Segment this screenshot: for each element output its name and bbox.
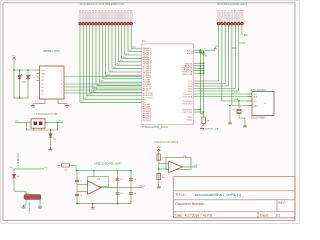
svg-text:SDA: SDA <box>234 98 239 101</box>
svg-text:1-WIRE-BUS: 1-WIRE-BUS <box>18 152 20 166</box>
svg-text:JS8086A-PINS: JS8086A-PINS <box>43 49 61 53</box>
svg-text:D34: D34 <box>100 81 103 83</box>
svg-text:DQ: DQ <box>45 167 49 169</box>
svg-text:1/1: 1/1 <box>276 214 281 218</box>
svg-text:PE1/TXD0: PE1/TXD0 <box>183 112 194 114</box>
svg-text:VCC2: VCC2 <box>239 43 246 45</box>
svg-text:1-WIRE-GND: 1-WIRE-GND <box>29 201 31 214</box>
svg-text:D50: D50 <box>126 53 129 55</box>
svg-text:D38: D38 <box>107 74 110 76</box>
svg-text:D24: D24 <box>84 98 87 100</box>
svg-text:VCC: VCC <box>157 147 162 149</box>
svg-text:TITLE:: TITLE: <box>175 193 186 197</box>
svg-text:GND: GND <box>41 73 46 75</box>
svg-text:D22: D22 <box>81 101 84 103</box>
svg-text:REV:: REV: <box>278 201 285 205</box>
svg-text:DS1307SMD: DS1307SMD <box>251 117 265 120</box>
svg-text:R4: R4 <box>65 170 67 172</box>
svg-text:VCC: VCC <box>12 55 17 57</box>
svg-text:VCC: VCC <box>214 45 219 47</box>
svg-text:TH1: TH1 <box>26 193 30 195</box>
svg-text:D54: D54 <box>132 47 135 49</box>
svg-text:VCC: VCC <box>253 101 258 103</box>
svg-text:D44: D44 <box>116 64 119 66</box>
svg-text:D3: D3 <box>17 176 19 178</box>
svg-text:PD3/TXD1: PD3/TXD1 <box>182 103 193 105</box>
svg-text:GND: GND <box>232 48 237 50</box>
svg-text:ATMEGA2560_16AU: ATMEGA2560_16AU <box>142 125 168 129</box>
svg-text:D42: D42 <box>113 67 116 69</box>
svg-text:4/17/2016 7:43 PM: 4/17/2016 7:43 PM <box>185 214 213 218</box>
svg-text:SDA: SDA <box>253 95 258 98</box>
svg-text:JP-ATMEGA-IO-D22-D52-EVEN-PIN: JP-ATMEGA-IO-D22-D52-EVEN-PIN <box>80 2 124 6</box>
svg-text:J-WATCH-OP-AMP-1: J-WATCH-OP-AMP-1 <box>154 140 179 144</box>
svg-text:D48: D48 <box>123 57 126 59</box>
svg-text:PIEZO: PIEZO <box>139 186 146 188</box>
svg-text:AREF: AREF <box>187 52 193 55</box>
svg-text:IC1: IC1 <box>142 40 146 43</box>
svg-text:D40: D40 <box>110 70 113 72</box>
svg-text:D46: D46 <box>120 60 123 62</box>
svg-text:JP-ATMEGA-PWR-UART: JP-ATMEGA-PWR-UART <box>217 2 248 6</box>
svg-text:sasunewatchfinal1_verR6 (1): sasunewatchfinal1_verR6 (1) <box>195 193 242 197</box>
svg-text:J-PROGRAM-5-PIN: J-PROGRAM-5-PIN <box>36 113 58 116</box>
svg-text:D52: D52 <box>129 50 132 52</box>
svg-text:PB5/OC1A: PB5/OC1A <box>182 73 193 76</box>
svg-text:Sheet:: Sheet: <box>260 214 270 218</box>
svg-text:PK7/A15: PK7/A15 <box>143 119 152 122</box>
svg-text:Q2: Q2 <box>232 109 235 111</box>
svg-text:D26: D26 <box>88 94 91 96</box>
svg-text:LED1: LED1 <box>22 82 27 84</box>
svg-text:Q1: Q1 <box>205 56 208 58</box>
svg-text:VCC: VCC <box>61 162 66 164</box>
svg-text:GND: GND <box>253 105 258 107</box>
svg-text:D30: D30 <box>94 87 97 89</box>
svg-text:J-PIEZO-BOARD-AMP: J-PIEZO-BOARD-AMP <box>94 162 121 166</box>
svg-text:D36: D36 <box>104 77 107 79</box>
svg-text:VCC: VCC <box>41 70 46 72</box>
svg-text:GND: GND <box>188 91 193 93</box>
svg-text:1W: 1W <box>10 167 13 169</box>
svg-text:RST: RST <box>59 120 64 122</box>
svg-text:PD1/SDA: PD1/SDA <box>183 95 192 98</box>
svg-text:J-SENSE-30A: J-SENSE-30A <box>205 128 219 131</box>
svg-text:D28: D28 <box>91 91 94 93</box>
svg-text:Document Number:: Document Number: <box>175 202 204 206</box>
svg-text:XTAL2: XTAL2 <box>186 118 193 121</box>
svg-text:D32: D32 <box>97 84 100 86</box>
svg-text:Date:: Date: <box>175 214 183 218</box>
